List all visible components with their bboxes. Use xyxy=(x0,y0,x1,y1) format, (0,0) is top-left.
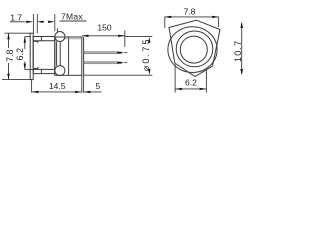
14.5 extension left xyxy=(31,79,33,93)
arrow dia0.75 down xyxy=(148,69,150,75)
flange big circle xyxy=(168,27,217,73)
svg-text:7.8: 7.8 xyxy=(5,49,15,62)
150 dim end tick xyxy=(124,31,126,48)
arrow 7.8 front right xyxy=(212,16,219,18)
thread minor line bottom xyxy=(33,68,55,70)
housing internal vertical line xyxy=(68,37,70,75)
7.8 front ext right xyxy=(218,17,220,27)
arrow 10.7 up xyxy=(240,22,243,28)
arrow 6.2 front right xyxy=(200,88,207,90)
7Max tick at housing edge xyxy=(54,14,56,31)
side view: housing rear inner line xyxy=(83,37,85,75)
hex nut polygon xyxy=(169,20,220,76)
side view: threaded bushing xyxy=(33,37,55,74)
svg-text:6.2: 6.2 xyxy=(15,48,25,61)
thread start vertical bottom xyxy=(40,69,42,73)
wire lead 2 (gray with black tip) xyxy=(84,62,127,64)
svg-text:10.7: 10.7 xyxy=(233,40,243,62)
arrow dia0.75 up xyxy=(148,37,150,43)
side view: flange xyxy=(30,33,33,79)
thread minor line top xyxy=(33,40,55,42)
6.2 dim line lower (left) xyxy=(24,62,26,70)
10.7 dim line xyxy=(241,23,243,74)
arrow 7Max right-pointing xyxy=(48,21,55,23)
arrow 5 left-pointing xyxy=(84,91,91,93)
dim 1.7 extension tick A xyxy=(32,14,34,33)
arrow 14.5 right xyxy=(75,91,82,93)
arrow 150 left-pointing xyxy=(82,35,89,37)
7Max underline xyxy=(60,20,87,22)
side view: plunger slot right line xyxy=(59,41,61,65)
6.2 bottom extension xyxy=(25,69,33,71)
7.8 dim line upper (left) xyxy=(8,33,10,48)
text labels side view xyxy=(5,11,151,91)
button inner circle xyxy=(180,36,207,63)
arrow 7.8 front left xyxy=(165,16,172,18)
dia0.75 bottom extension line xyxy=(84,74,152,76)
housing internal top gray line xyxy=(65,38,84,40)
7.8 top extension xyxy=(5,32,31,34)
6.2 front ext right xyxy=(205,70,207,93)
arrow 7Max left-pointing xyxy=(37,21,44,23)
side view: plunger slot left line xyxy=(56,41,58,65)
5 extension line xyxy=(83,75,85,93)
bezel middle circle xyxy=(176,31,213,67)
arrow 6.2 down xyxy=(24,64,26,70)
side view: plunger bottom circle xyxy=(55,66,65,76)
6.2 front ext left xyxy=(174,64,176,92)
arrow 1.7 outside right-pointing xyxy=(26,21,33,23)
svg-text:150: 150 xyxy=(97,23,111,33)
7.8 bottom extension xyxy=(2,79,30,81)
arrow 7.8 down xyxy=(7,74,9,80)
wire lead 1 (gray with black tip) xyxy=(84,52,127,54)
svg-text:6.2: 6.2 xyxy=(185,77,197,87)
6.2 front dim line xyxy=(175,88,206,90)
svg-text:⌀0.75: ⌀0.75 xyxy=(141,37,151,71)
arrowheads side view xyxy=(7,21,150,94)
dim 1.7 extension tick B xyxy=(36,14,38,33)
side view: housing body xyxy=(55,37,82,75)
svg-text:5: 5 xyxy=(96,81,101,91)
14.5 extension right / housing edge extended xyxy=(81,75,83,93)
150 dim line xyxy=(82,35,125,37)
side view: button collar top edge xyxy=(33,41,38,42)
arrow 6.2 up xyxy=(24,37,26,43)
dim 1.7 leader line under text xyxy=(10,21,26,23)
arrow 14.5 left xyxy=(32,91,39,93)
arrow 7.8 up xyxy=(7,33,9,39)
arrow 150 right-pointing xyxy=(118,35,125,37)
14.5 dim line xyxy=(32,91,82,93)
svg-text:1.7: 1.7 xyxy=(10,12,22,22)
5 dim line xyxy=(84,91,102,93)
dia0.75 top extension line xyxy=(125,35,152,37)
7.8 front dim line xyxy=(165,16,219,18)
7.8 dim line lower (left) xyxy=(8,63,10,80)
plunger stem above xyxy=(56,28,58,31)
arrow 10.7 down xyxy=(240,69,243,75)
thread start vertical top xyxy=(40,37,42,41)
7.8 front ext left xyxy=(164,17,166,28)
svg-text:14.5: 14.5 xyxy=(49,81,66,91)
side view: plunger top circle xyxy=(55,32,65,42)
svg-text:7.8: 7.8 xyxy=(184,7,196,17)
side view: button collar bottom edge xyxy=(33,67,38,68)
svg-text:7Max: 7Max xyxy=(61,11,83,21)
6.2 dim line upper (left) xyxy=(24,37,26,49)
6.2 top extension xyxy=(25,36,30,38)
FRONT VIEW xyxy=(168,20,220,76)
arrow 6.2 front left xyxy=(175,88,182,90)
